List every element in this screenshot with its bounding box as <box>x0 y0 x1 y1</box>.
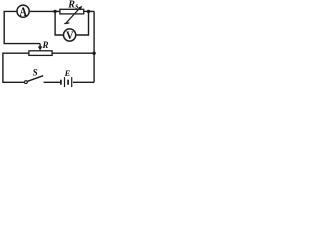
switch S lever <box>27 76 43 82</box>
wire switch to battery <box>44 81 61 83</box>
svg-text:V: V <box>66 29 74 42</box>
wire battery to right corner <box>73 81 94 83</box>
resistor Rs (body) <box>60 9 84 14</box>
wire voltmeter right branch <box>76 11 88 35</box>
wire top rail: ammeter to rheostat Rs <box>30 10 60 12</box>
wire R left end, down left side, to switch <box>3 53 29 82</box>
node junction dot at R right wire and right rail <box>92 52 95 55</box>
wire right side rail down to battery corner <box>93 11 95 82</box>
ammeter A <box>17 5 29 17</box>
battery E plates <box>60 80 62 85</box>
voltmeter V <box>64 29 76 41</box>
svg-text:A: A <box>19 5 27 19</box>
svg-text:R: R <box>67 0 75 11</box>
node junction dot right of Rs <box>87 10 90 13</box>
svg-text:R: R <box>42 40 49 50</box>
resistor R (body) <box>29 51 52 56</box>
wire voltmeter left branch <box>55 11 63 35</box>
wire wiper arm down to resistor R (arrow shaft) <box>39 44 41 48</box>
switch S contact <box>25 81 28 84</box>
node junction dot left of Rs <box>53 10 56 13</box>
arrowhead onto resistor R <box>38 46 42 50</box>
svg-text:E: E <box>64 68 71 78</box>
wire top rail: Rs to right corner <box>84 10 94 12</box>
rheostat Rs diagonal arrow <box>66 8 80 23</box>
svg-text:S: S <box>33 68 38 78</box>
wire top-left: top rail from ammeter to left corner, down left side, across to wiper arm <box>4 11 40 43</box>
wire R right end to right rail <box>52 52 94 54</box>
svg-text:s: s <box>74 1 78 10</box>
